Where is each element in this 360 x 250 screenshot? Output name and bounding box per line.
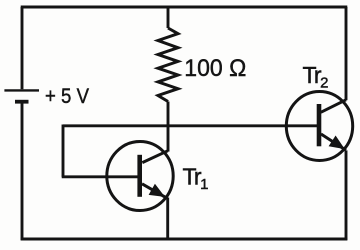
svg-text:+ 5 V: + 5 V <box>45 84 90 108</box>
Tr1 emitter arrowhead <box>150 185 164 196</box>
battery negative plate <box>15 100 29 104</box>
Tr1 circle <box>107 142 173 211</box>
Tr2 emitter arrowhead <box>330 137 344 149</box>
wire Tr1 base horizontal <box>62 175 139 178</box>
svg-text:Tr1: Tr1 <box>183 164 209 194</box>
wire Tr1 emitter to bottom <box>166 198 169 241</box>
Tr2 collector line <box>321 100 346 113</box>
svg-text:Tr2: Tr2 <box>303 62 329 92</box>
wire resistor bottom lead to Tr1 collector <box>167 102 170 152</box>
Tr1 emitter line <box>142 184 167 198</box>
wire bottom horizontal <box>21 238 348 241</box>
Tr2 circle <box>286 92 352 161</box>
Tr2 emitter line <box>321 134 346 150</box>
wire top horizontal <box>21 6 348 9</box>
wire left vertical upper (battery + terminal to top) <box>21 7 24 89</box>
svg-text:100 Ω: 100 Ω <box>184 55 246 82</box>
Tr2 base bar <box>317 104 322 146</box>
resistor R 100 ohm zigzag <box>158 28 178 102</box>
Tr1 collector line <box>142 151 167 163</box>
wire right vertical lower (Tr2 emitter to bottom) <box>345 150 348 240</box>
transistor Q Tr1 <box>107 142 173 211</box>
Tr1 base bar <box>137 155 142 197</box>
wire resistor top lead <box>167 7 170 28</box>
wire base bus horizontal (Tr1 base loop to Tr2 base) <box>63 124 317 127</box>
transistor Q Tr2 <box>286 92 352 161</box>
wire right vertical upper (top to Tr2 collector) <box>345 7 348 100</box>
wire base loop vertical link <box>62 125 65 177</box>
wire left vertical lower (battery - terminal to bottom) <box>21 103 24 240</box>
battery positive plate <box>4 89 39 91</box>
